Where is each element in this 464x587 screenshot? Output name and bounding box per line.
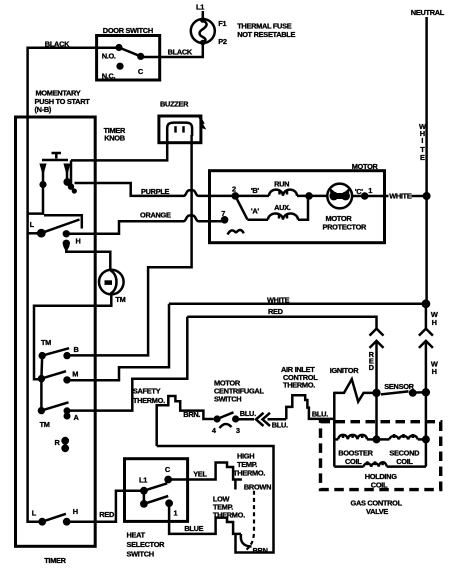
wire M to white bus <box>67 304 169 380</box>
svg-text:'C': 'C' <box>355 187 363 196</box>
label WH upper <box>431 310 438 327</box>
svg-text:SAFETY: SAFETY <box>133 387 161 396</box>
svg-text:PURPLE: PURPLE <box>141 187 170 196</box>
gas control valve dashed box <box>321 422 441 490</box>
neutral-WH line lower <box>425 341 428 467</box>
svg-text:TM: TM <box>115 295 125 304</box>
switch arm L1-C <box>144 483 167 490</box>
svg-text:N.C.: N.C. <box>102 71 116 80</box>
svg-text:MOTOR: MOTOR <box>352 162 379 171</box>
junction dot booster-second <box>373 435 381 443</box>
holding coil branch <box>334 461 426 466</box>
svg-text:WHITE: WHITE <box>389 192 412 201</box>
contact C <box>164 465 172 483</box>
svg-text:RED: RED <box>99 510 115 519</box>
wire black main: door switch to L contact <box>28 48 119 522</box>
svg-text:TM: TM <box>40 420 50 429</box>
contact M <box>63 369 78 383</box>
red line lower segment <box>375 341 378 440</box>
pin 7 <box>221 209 229 224</box>
svg-text:B: B <box>74 345 79 354</box>
white bus wire <box>169 303 426 306</box>
label LOW TEMP. THERMO. <box>213 494 245 519</box>
svg-text:L1: L1 <box>139 476 147 485</box>
timer box <box>16 117 96 546</box>
arc under motor switch <box>228 230 244 235</box>
svg-text:BUZZER: BUZZER <box>160 100 189 109</box>
svg-text:M: M <box>72 369 78 378</box>
contact R <box>55 437 70 452</box>
label MOTOR CENTRIFUGAL SWITCH <box>214 378 264 403</box>
switch arm momentary <box>41 220 79 234</box>
wire L1 lead <box>202 11 205 20</box>
label RED vertical <box>369 350 375 372</box>
contact arrow 2 <box>63 164 77 194</box>
svg-text:HEAT: HEAT <box>127 531 146 540</box>
motor box <box>210 171 385 243</box>
motor centrifugal arm inside <box>235 196 247 220</box>
link TM1-TM2 <box>40 356 43 379</box>
wire buzzer right lead to contact B <box>67 135 192 355</box>
neutral line upper stub <box>425 304 428 329</box>
svg-text:THERMO.: THERMO. <box>133 396 165 405</box>
svg-text:NOT RESETABLE: NOT RESETABLE <box>237 30 295 39</box>
label WH lower <box>431 360 438 377</box>
second coil <box>377 434 426 439</box>
label thermal fuse note <box>237 22 295 40</box>
svg-text:BROWN: BROWN <box>244 482 271 491</box>
pivot dot TM2 <box>38 375 45 382</box>
svg-text:BRN.: BRN. <box>183 410 200 419</box>
heat selector switch box <box>125 459 188 522</box>
node L1 <box>196 3 204 20</box>
svg-text:L1: L1 <box>196 3 204 12</box>
svg-text:3: 3 <box>236 426 240 435</box>
label MOMENTARY PUSH TO START <box>35 89 91 114</box>
pivot dot TM3 <box>38 407 45 414</box>
svg-text:NEUTRAL: NEUTRAL <box>411 8 445 17</box>
contact N.O. <box>102 44 123 61</box>
label HOLDING COIL <box>365 472 398 490</box>
label WHITE tiny vertical on neutral <box>419 122 426 162</box>
svg-text:F1: F1 <box>218 19 226 28</box>
label AIR INLET CONTROL THERMO. <box>281 365 318 390</box>
svg-text:THERMO.: THERMO. <box>213 510 245 519</box>
fuse F1-P2 thermal fuse <box>191 17 215 45</box>
buzzer BZ <box>159 115 206 143</box>
wire ignitor riser <box>333 392 336 467</box>
svg-text:IGNITOR: IGNITOR <box>330 366 360 375</box>
switch arm N.O. to C <box>119 48 141 57</box>
wire black tap to pivot <box>28 232 42 235</box>
return wire to safety thermo <box>157 446 274 553</box>
wire disconnect to air inlet thermo <box>268 418 287 421</box>
junction dot valve right <box>422 435 430 443</box>
svg-text:BLACK: BLACK <box>168 48 193 57</box>
purple wire to motor pin 2 <box>75 183 236 196</box>
svg-text:1: 1 <box>368 186 372 195</box>
label TIMER KNOB <box>104 126 126 142</box>
wire buzzer left lead to push contact <box>71 135 167 160</box>
wire contact 1 to black line <box>28 185 43 214</box>
svg-text:BLU.: BLU. <box>240 409 256 418</box>
svg-text:THERMO.: THERMO. <box>233 468 265 477</box>
svg-text:I: I <box>421 136 423 145</box>
svg-text:1: 1 <box>174 509 178 518</box>
svg-text:SELECTOR: SELECTOR <box>127 540 166 549</box>
timer motor TM <box>99 270 126 304</box>
wire H to timer motor <box>66 248 110 270</box>
svg-text:(N-B): (N-B) <box>35 105 52 114</box>
switch arm B <box>42 348 69 355</box>
svg-text:ORANGE: ORANGE <box>140 210 171 219</box>
contact H dots <box>63 230 81 252</box>
door switch box <box>97 36 160 81</box>
label SECOND COIL <box>389 448 420 466</box>
svg-text:SWITCH: SWITCH <box>214 394 241 403</box>
svg-text:COIL: COIL <box>345 457 362 466</box>
timer line switch L-H <box>32 507 78 525</box>
svg-text:AUX.: AUX. <box>274 203 291 212</box>
brown tick <box>234 481 237 490</box>
junction dot white-neutral <box>422 299 431 308</box>
svg-text:H: H <box>432 318 437 327</box>
wire 3 to disconnect <box>236 418 254 421</box>
blue wire end hook <box>241 534 252 547</box>
aux winding <box>247 196 308 220</box>
label HEAT SELECTOR SWITCH <box>127 531 166 559</box>
contact C <box>137 53 144 76</box>
switch arm M <box>41 371 66 378</box>
contact L1 <box>139 476 148 495</box>
wire neutral line top <box>425 17 428 304</box>
switch arm lower <box>144 496 168 504</box>
contact B <box>63 345 78 359</box>
booster coil <box>334 434 376 439</box>
svg-text:RED: RED <box>268 307 284 316</box>
link TM2-TM3 <box>40 379 43 411</box>
svg-text:H: H <box>76 237 81 246</box>
label HIGH TEMP. THERMO. <box>233 452 265 478</box>
svg-text:WHITE: WHITE <box>267 296 290 305</box>
centrifugal switch contacts 4-3 <box>212 412 240 435</box>
wire push bypass to arm tip <box>44 215 82 228</box>
contact A <box>64 407 80 422</box>
label SAFETY THERMO. <box>133 387 165 405</box>
switch arm A <box>41 402 68 410</box>
wire H to heat selector L1 <box>67 491 144 522</box>
pivot L of momentary switch <box>30 220 46 238</box>
svg-text:DOOR SWITCH: DOOR SWITCH <box>103 26 153 35</box>
svg-text:COIL: COIL <box>371 480 388 489</box>
svg-text:COIL: COIL <box>396 457 413 466</box>
link L1 to second pivot <box>143 491 146 504</box>
wire fuse to door switch C <box>141 43 203 57</box>
svg-text:PROTECTOR: PROTECTOR <box>323 222 368 231</box>
second pivot dot <box>140 500 148 508</box>
svg-text:SWITCH: SWITCH <box>127 550 154 559</box>
svg-text:VALVE: VALVE <box>366 507 388 516</box>
svg-text:THERMO.: THERMO. <box>283 381 315 390</box>
junction dot red-ignitor <box>372 389 380 397</box>
svg-text:P2: P2 <box>218 37 227 46</box>
wire timer motor to pivot chain <box>34 294 111 379</box>
contact arrow 1 <box>39 164 46 189</box>
svg-text:RUN: RUN <box>274 179 289 188</box>
svg-text:TM: TM <box>41 338 51 347</box>
blue wire with low temp thermostat <box>169 503 241 534</box>
brown dashed wire <box>247 491 255 550</box>
neutral line chevron disconnect <box>419 329 433 348</box>
svg-text:BLU.: BLU. <box>312 409 328 418</box>
svg-text:BLUE: BLUE <box>184 524 203 533</box>
safety thermostat <box>157 396 214 446</box>
label BOOSTER COIL <box>338 448 373 466</box>
sensor element <box>381 388 430 397</box>
air inlet control thermostat <box>286 395 334 419</box>
run winding <box>235 190 327 196</box>
contact 1 <box>165 499 177 517</box>
svg-text:H: H <box>73 507 78 516</box>
svg-text:SENSOR: SENSOR <box>384 382 414 391</box>
junction dot run-aux <box>305 192 313 200</box>
wire A to red bus <box>67 317 187 411</box>
disconnect on red line <box>370 329 384 348</box>
svg-text:'A': 'A' <box>251 207 259 216</box>
svg-text:TIMER: TIMER <box>44 556 66 565</box>
svg-text:KNOB: KNOB <box>104 133 125 142</box>
push-to-start actuator T <box>42 153 68 160</box>
yellow wire with high temp thermostat <box>168 463 242 480</box>
junction dot neutral-motor <box>423 192 431 200</box>
label GAS CONTROL VALVE <box>351 499 403 516</box>
label MOTOR PROTECTOR <box>323 214 368 232</box>
orange wire to motor pin 7 <box>69 216 225 234</box>
horizontal disconnect chevrons <box>256 413 270 426</box>
svg-text:H: H <box>432 367 437 376</box>
svg-text:YEL: YEL <box>193 470 207 479</box>
svg-text:BLU.: BLU. <box>272 420 288 429</box>
wire motor white to neutral <box>365 195 427 198</box>
ignitor <box>334 379 376 402</box>
svg-text:E: E <box>420 153 425 162</box>
red bus wire <box>187 317 376 329</box>
svg-text:'B': 'B' <box>251 186 259 195</box>
contact N.C. <box>102 63 124 81</box>
wire contact 2 drop from buzzer wire <box>70 160 73 184</box>
pin 'C' 1 <box>352 186 372 200</box>
motor protector <box>327 184 352 209</box>
pivot dot TM1 <box>39 352 46 359</box>
svg-text:N.O.: N.O. <box>102 51 116 60</box>
pin 2 <box>232 185 240 200</box>
